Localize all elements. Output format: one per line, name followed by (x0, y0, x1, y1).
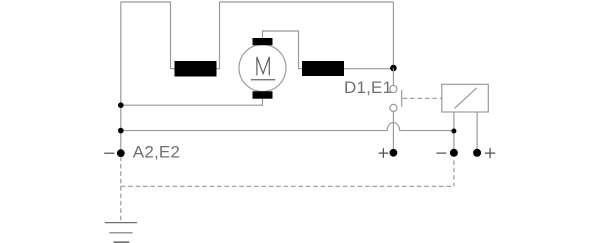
wire box left pin down (453, 112, 455, 153)
terminal circle E1 (390, 104, 397, 111)
wire top-left horizontal (121, 1, 171, 3)
wire main horizontal with hop (121, 123, 454, 131)
terminal dot A2,E2 (117, 149, 125, 157)
node dot box pin / main wire (451, 129, 456, 134)
dashed link bar to box (403, 97, 442, 99)
motor M circle (239, 45, 286, 92)
resistor right field winding (302, 61, 344, 76)
node dot left rail / main wire (118, 128, 124, 134)
wire motor bottom brush to left rail (121, 99, 263, 106)
box diagonal (455, 88, 477, 109)
svg-text:D1,E1: D1,E1 (344, 78, 392, 97)
resistor left field winding (175, 61, 217, 77)
terminal circle D1 (390, 85, 397, 92)
terminal dot brake minus (450, 149, 458, 157)
node dot left rail / motor return (118, 102, 124, 108)
wire left resistor left lead (171, 2, 175, 69)
wire E1 down to plus terminal (392, 112, 394, 153)
minus sign at brake (436, 152, 446, 154)
motor top brush (253, 38, 273, 45)
ground top line (105, 222, 137, 224)
plus sign at brake (485, 148, 495, 158)
terminal dot battery plus (390, 149, 398, 157)
wire node to terminal D1 (392, 68, 394, 85)
dashed wire bottom horizontal (121, 185, 454, 187)
wire left rail vertical (120, 2, 122, 153)
wire right resistor to node (344, 68, 393, 70)
motor letter M (257, 57, 269, 76)
wire box right pin down (476, 112, 478, 153)
ground middle line (109, 232, 132, 234)
wire top-right horizontal (220, 1, 394, 3)
wire right drop to node (392, 2, 394, 68)
switch actuator bar (401, 90, 403, 107)
motor underline (251, 79, 275, 81)
ground bottom line (114, 241, 130, 243)
dashed wire brake minus down (453, 160, 455, 186)
node junction dot right of resistor (390, 65, 397, 72)
wire left resistor right lead up (217, 2, 220, 69)
minus sign at A2,E2 (104, 152, 114, 154)
box component (brake) (442, 84, 489, 112)
motor bottom brush (253, 91, 273, 98)
svg-text:A2,E2: A2,E2 (133, 142, 180, 161)
dashed wire A2 to ground (120, 158, 122, 221)
wire motor top brush to right resistor (263, 31, 303, 69)
plus sign at battery (379, 148, 389, 158)
terminal dot brake plus (473, 149, 481, 157)
